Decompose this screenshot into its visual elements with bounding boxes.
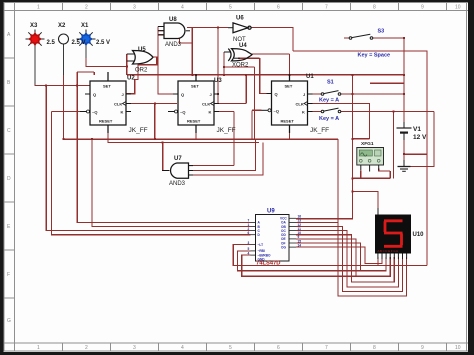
svg-text:SET: SET [191,84,199,89]
battery V1 [397,122,412,140]
svg-text:RESET: RESET [187,119,201,124]
svg-text:K: K [209,110,212,115]
svg-text:10: 10 [455,345,461,351]
svg-text:10: 10 [455,5,461,11]
svg-text:OR2: OR2 [135,68,148,74]
svg-text:9: 9 [421,5,424,11]
svg-text:J: J [303,92,305,97]
lamp X2 (white probe) [59,34,69,75]
wire U9 input A feeder from FF1 Q area [77,72,250,222]
wire battery area to right loop [404,153,427,155]
bottom ruler cell dividers [62,343,64,351]
components group placeholder [26,23,412,261]
FF pin names [92,84,305,124]
svg-text:A B C D E F G H: A B C D E F G H [378,249,399,253]
svg-text:~Q: ~Q [92,110,97,115]
wire U9 ~BI/RBO loop merging OE level [242,255,356,276]
labels group placeholder [30,16,427,267]
svg-text:V1: V1 [413,126,421,133]
wire under XFG1 [352,169,390,179]
svg-text:CLK: CLK [296,102,304,107]
svg-text:SET: SET [103,84,111,89]
svg-text:S1: S1 [327,80,334,86]
svg-text:SET: SET [285,84,293,89]
decoder chip U9 74LS47D [251,215,297,262]
wire under XOR2 label to bus1 [224,67,254,139]
wire bus1 drop joining OA vertical [337,139,339,222]
svg-text:1: 1 [37,5,40,11]
wire U7 input1 from FF2 K vertical [189,165,234,167]
svg-text:U1: U1 [306,74,314,80]
svg-text:9: 9 [421,345,424,351]
wire U9 OA to display pin 8 [296,222,407,296]
wire U8 output branch down to FF2 clk [214,28,218,104]
wire U8 output to NOT input [187,27,228,29]
svg-text:Key = A: Key = A [319,116,339,122]
svg-text:XFG1: XFG1 [361,141,374,147]
svg-text:2.5 V: 2.5 V [72,40,86,46]
svg-text:1: 1 [37,345,40,351]
ground under battery [398,160,411,171]
svg-text:Q: Q [181,92,184,97]
wire S1 line U1 J through to battery vertical [313,93,405,95]
wire FF2 CLK right and up to main bus [219,75,246,104]
svg-text:K: K [302,110,305,115]
svg-text:~Q: ~Q [274,108,279,113]
svg-text:JK_FF: JK_FF [217,127,236,134]
svg-text:Key = A: Key = A [319,98,339,104]
wire U9 VCC from display top net [296,218,352,220]
wire U7 input3 up to bus2 [189,143,263,176]
lamp X3 (red probe) [26,30,45,86]
switch S3 [349,34,373,39]
wire FF3 reset stub to bus1 [289,133,291,139]
wire Key=Space line down right side to lamp-test line [293,51,427,266]
wire FF3 ~Q left and down to bus1 [252,110,262,139]
battery labels [413,126,427,141]
U9 pin names inside [258,217,288,262]
wire U9 ~LT long line to pin 1 and right loop [233,245,427,266]
lamp labels [30,23,89,29]
svg-text:2.5: 2.5 [47,40,56,46]
wire XOR2 lower input hook from FF3 Q [238,58,267,93]
svg-text:4: 4 [181,5,184,11]
wire XOR2 output right to U1 SET drop [251,54,289,75]
svg-text:8: 8 [373,5,376,11]
wire U1 CLK to XFG1 [313,104,370,139]
wire S3 right lead to battery top vertical [373,38,405,122]
wire U9 input B feeder from bus1 [92,139,251,226]
svg-text:12 V: 12 V [413,134,427,141]
svg-text:U3: U3 [214,78,222,84]
svg-text:U2: U2 [127,76,135,82]
svg-text:RESET: RESET [99,119,113,124]
svg-text:Q: Q [275,92,278,97]
ruler letters left [7,32,11,324]
wire FF1 CLK across to bus1 drop [126,104,177,140]
wire S3 left lead [344,37,349,39]
svg-text:D: D [7,176,11,182]
switch S1 [321,91,341,96]
wire U7 input2 up to bus1 [189,139,255,170]
flip-flop U2 [80,72,131,133]
svg-text:X3: X3 [30,23,38,29]
ruler numbers top [37,5,461,11]
svg-text:Key = Space: Key = Space [358,53,391,59]
svg-text:6: 6 [277,5,280,11]
wire U7 output up to bus2 [163,143,170,171]
wire U9 input D feeder [51,112,250,235]
svg-text:CLK: CLK [114,102,122,107]
svg-text:JK_FF: JK_FF [310,127,329,134]
wires group placeholder [35,27,434,296]
svg-text:4: 4 [181,345,184,351]
svg-text:AND3: AND3 [165,42,182,48]
svg-text:3: 3 [133,5,136,11]
svg-text:AND3: AND3 [169,181,186,187]
svg-text:S3: S3 [378,29,385,35]
svg-text:G: G [7,318,11,324]
black video letterbox bars [0,0,474,2]
xor-gate U4 XOR2 [224,49,252,61]
and-gate U7 AND3 (mirrored, output left) [162,163,193,178]
not-gate U6 [228,23,251,33]
switch S2 [321,108,341,113]
svg-text:U10: U10 [413,232,425,238]
wire U8 inputs vertical from FF2 Q [158,27,173,95]
svg-text:CLK: CLK [202,102,210,107]
wire U9 OB to display pin 7 [296,227,403,292]
svg-text:U5: U5 [138,47,146,53]
top ruler cell dividers [62,3,64,11]
function generator XFG1 [357,148,384,172]
wire U8 output branch loop down to main bus [180,28,193,75]
or-gate U5 OR2 [127,51,153,65]
wire bus1 below FFs [64,138,338,140]
wire X1 lamp down and over to OR2 inputs [86,46,127,67]
svg-text:C: C [7,128,11,134]
svg-text:RESET: RESET [281,119,295,124]
svg-text:7: 7 [325,5,328,11]
svg-text:K: K [121,110,124,115]
ruler numbers bottom [37,345,461,351]
svg-text:5: 5 [229,345,232,351]
svg-text:7: 7 [325,345,328,351]
svg-text:8: 8 [373,345,376,351]
svg-text:2: 2 [85,5,88,11]
wire XOR2 top input from vertical to bus [224,52,229,75]
flip-flop U1 [262,74,313,133]
svg-text:14: 14 [298,243,302,247]
flip-flop U3 [168,74,219,133]
svg-text:~Q: ~Q [180,110,185,115]
svg-text:2.5 V: 2.5 V [96,40,110,46]
svg-text:NOT: NOT [233,37,246,43]
svg-text:X2: X2 [58,23,66,29]
wire battery bottom to ground [403,133,405,167]
wire U9 OC to display pin 6 [296,231,398,287]
wire main bus y74.8 across sheet to battery vertical [127,75,404,81]
lamp X1 (blue probe) [77,30,96,59]
wire right K vertical down to ground level [404,112,434,167]
svg-text:~LT: ~LT [258,243,264,247]
op gates stroke style [127,23,252,178]
svg-text:F: F [7,272,10,278]
svg-text:GND: GND [258,257,266,261]
wire OR2 inputs vertical [127,54,135,75]
svg-text:U6: U6 [236,16,244,22]
svg-text:U8: U8 [169,17,177,23]
wire bus2 below FFs [108,133,259,143]
seven-segment display U10 [375,208,411,259]
svg-text:J: J [122,92,124,97]
svg-text:6: 6 [248,231,250,235]
gate designators [127,16,424,239]
svg-text:2: 2 [85,345,88,351]
wire S1 branch down to XFG area [351,75,353,220]
svg-text:3: 3 [248,241,250,245]
svg-text:U7: U7 [174,156,182,162]
U9 pin numbers [248,215,302,256]
svg-text:U9: U9 [267,209,275,215]
svg-text:3: 3 [133,345,136,351]
wire X2 lamp down to bus1 [63,46,65,139]
wire stub right area y83 [370,82,404,84]
wire U9 OG to display pin 2 [296,247,382,263]
svg-text:6: 6 [277,345,280,351]
wire U9 OE to display pin 4 [296,239,390,276]
wire feeder A top jog toward FF1 SET [77,72,94,75]
switch labels [319,29,390,123]
and-gate U8 AND3 [158,23,190,39]
FF labels [129,127,330,134]
wire display top pin to U9 VCC net [352,192,378,208]
svg-text:XOR2: XOR2 [232,63,249,69]
svg-text:JK_FF: JK_FF [129,127,148,134]
svg-text:OG: OG [281,245,286,249]
left ruler cell dividers [4,57,15,59]
wire U9 OF to display pin 3 [296,243,386,271]
svg-text:U4: U4 [239,43,247,49]
svg-text:J: J [210,92,212,97]
wire FF2 reset stub to bus1 [195,133,197,139]
svg-text:5: 5 [229,5,232,11]
wire NOT output right then down [251,28,293,52]
wire X3 lamp down to FF1 Q [35,45,90,86]
wire S2 line U1 K to right [313,112,434,179]
wire U9 ~RBI loop merging OF level [238,251,361,271]
wire FF2 K right to U7 input1 vertical [219,112,234,166]
svg-text:4: 4 [248,251,250,255]
svg-text:Q: Q [93,92,96,97]
wire U9 OD to display pin 5 [296,235,394,282]
wire U9 input C feeder from FF1 ~Q [46,86,250,231]
wire OR2 output hook to FF1 J [126,57,157,94]
svg-text:X1: X1 [81,23,89,29]
